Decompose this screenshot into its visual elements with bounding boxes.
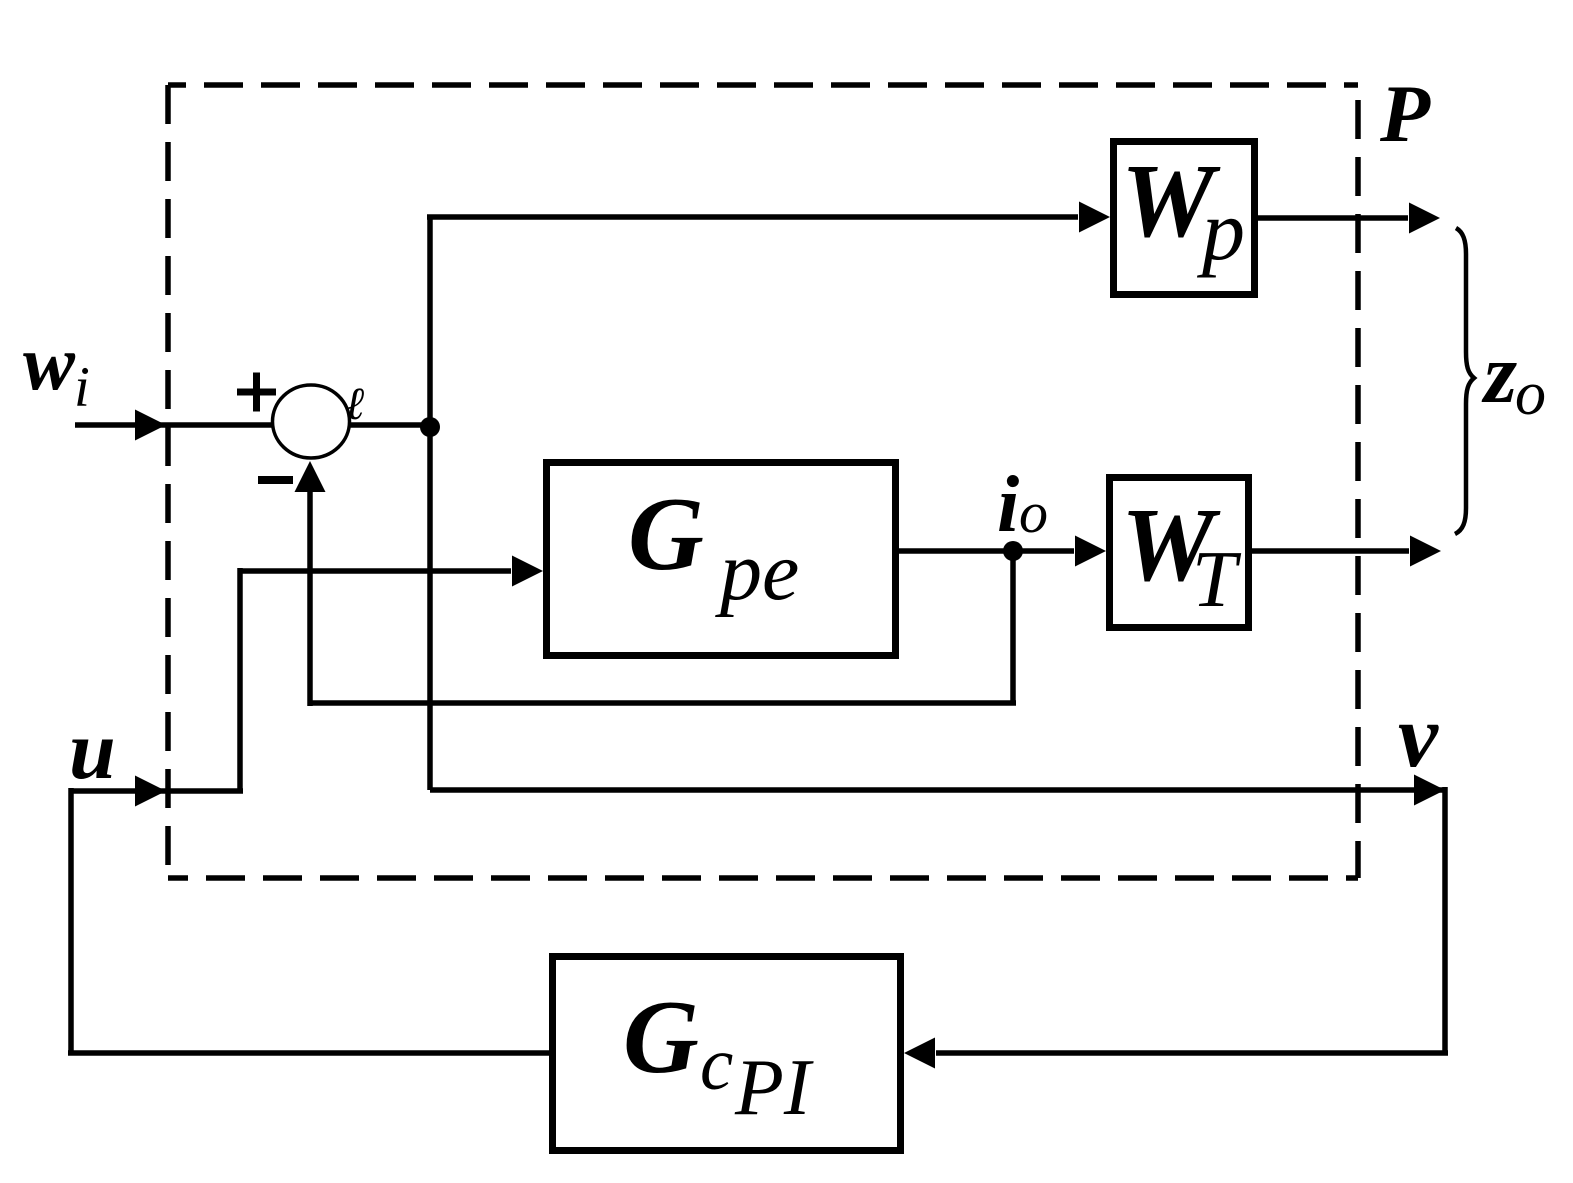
wire top to Wp bbox=[427, 214, 1078, 220]
wire minus vertical bbox=[307, 490, 313, 706]
wire v horizontal bbox=[430, 787, 1445, 793]
plant boundary dashed box bottom edge bbox=[168, 875, 1358, 881]
svg-text:P: P bbox=[1379, 68, 1431, 159]
svg-text:G: G bbox=[628, 475, 704, 592]
node A junction dot bbox=[420, 417, 440, 437]
minus sign bbox=[258, 476, 293, 484]
wire v to GcPI bbox=[936, 1050, 1448, 1056]
svg-text:p: p bbox=[1196, 182, 1245, 278]
node io junction dot bbox=[1003, 541, 1023, 561]
svg-text:i: i bbox=[997, 461, 1019, 549]
arrow Wp output bbox=[1409, 203, 1440, 234]
svg-text:PI: PI bbox=[734, 1044, 814, 1132]
plant boundary dashed box right edge bbox=[1355, 85, 1361, 878]
arrow wi into box bbox=[135, 410, 166, 441]
plant boundary dashed box top edge bbox=[168, 82, 1358, 88]
arrow u into box bbox=[135, 776, 166, 807]
wire sum to node A bbox=[348, 422, 430, 428]
arrow minus into sum bbox=[295, 461, 326, 492]
wire u vertical bbox=[237, 568, 243, 791]
wire u left vertical bbox=[68, 788, 74, 1053]
summing junction bbox=[273, 385, 350, 458]
svg-text:z: z bbox=[1481, 327, 1517, 421]
arrow into GcPI bbox=[904, 1038, 935, 1069]
wire u horizontal bbox=[71, 788, 243, 794]
wire u to Gpe input bbox=[240, 568, 511, 574]
arrow WT output bbox=[1410, 536, 1441, 567]
wire io vertical bbox=[1010, 551, 1016, 703]
wire GcPI output to u bbox=[68, 1050, 549, 1056]
svg-text:v: v bbox=[1398, 687, 1439, 786]
wire feedback horizontal bbox=[310, 700, 1016, 706]
svg-text:o: o bbox=[1515, 360, 1546, 428]
label ell bbox=[346, 388, 364, 419]
arrow into Wp bbox=[1079, 202, 1110, 233]
svg-text:o: o bbox=[1019, 480, 1048, 545]
arrow v bbox=[1414, 775, 1445, 806]
plus sign bbox=[237, 373, 276, 412]
wire Wp output bbox=[1258, 215, 1408, 221]
svg-text:T: T bbox=[1192, 536, 1242, 624]
block Wp bbox=[1114, 142, 1255, 295]
wire v vertical bbox=[1442, 787, 1448, 1053]
wire node A vertical bbox=[427, 216, 433, 790]
plant boundary dashed box left edge bbox=[165, 85, 171, 878]
arrow into Gpe bbox=[512, 556, 543, 587]
wire WT output bbox=[1251, 548, 1409, 554]
svg-text:pe: pe bbox=[715, 525, 799, 618]
svg-text:i: i bbox=[74, 356, 90, 419]
block Gpe bbox=[547, 463, 896, 656]
wire wi input bbox=[75, 422, 274, 428]
svg-text:w: w bbox=[23, 319, 76, 406]
block GcPI bbox=[553, 957, 901, 1151]
wire Gpe output bbox=[899, 548, 1074, 554]
svg-text:c: c bbox=[700, 1023, 733, 1106]
arrow into WT bbox=[1075, 536, 1106, 567]
block WT bbox=[1110, 478, 1249, 628]
svg-text:G: G bbox=[623, 978, 699, 1095]
brace zo bbox=[1455, 228, 1474, 534]
svg-text:u: u bbox=[69, 704, 116, 797]
